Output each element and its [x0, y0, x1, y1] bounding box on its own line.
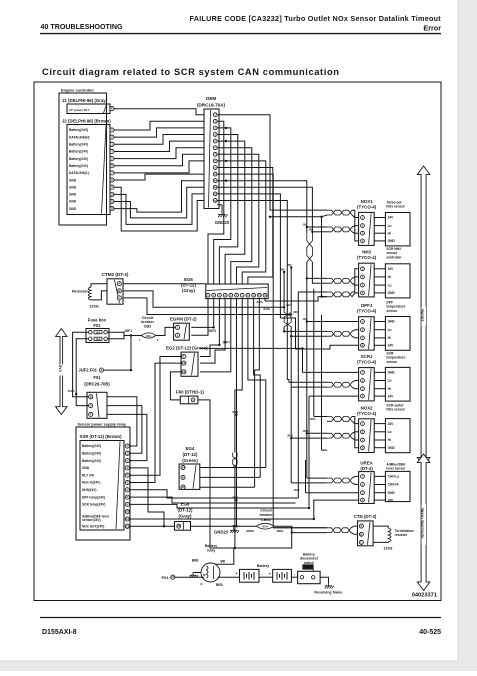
EG5 pin 8 — [246, 293, 250, 297]
wire OEM pin5 trunk to EG5 — [217, 141, 245, 284]
wire OEM pin3 trunk to EG5 — [214, 128, 231, 284]
svg-text:A: A — [118, 282, 120, 286]
F01 pin D — [89, 404, 93, 408]
wire EG5 pin9 down — [254, 299, 261, 478]
wire OEM pin9 trunk to EG5 — [217, 168, 272, 285]
svg-text:CB2: CB2 — [144, 325, 152, 329]
wire battery relay to battery — [218, 576, 240, 578]
OEM pin 4 — [213, 133, 217, 137]
svg-text:BB60: BB60 — [246, 529, 254, 533]
svg-text:Battery: Battery — [205, 544, 217, 548]
junction JUF4 — [75, 393, 77, 395]
svg-text:Hi: Hi — [388, 387, 391, 391]
wire NH3 supply upper-left from SSR — [298, 292, 327, 498]
wire J2 pin5 to OEM — [114, 148, 204, 159]
CTN pin A — [359, 524, 363, 528]
F01 pin F — [89, 412, 93, 416]
svg-text:NOX1: NOX1 — [361, 199, 374, 204]
wire EG2 pin10 left down to SSR NOx in — [129, 363, 181, 482]
svg-text:+: + — [235, 572, 237, 576]
UREA pin 2 — [361, 483, 365, 487]
EG5 pin 9 — [252, 293, 256, 297]
wire J2 pin12 staircase to OEM pin11 — [114, 181, 204, 212]
EG2 pin 1 — [182, 354, 186, 358]
OEM pin 8 — [213, 159, 217, 163]
CAN braid EG5 to DPFJ — [284, 307, 291, 327]
wire OEM pin11 CAN-H to NOX1 braid — [217, 181, 306, 227]
DPFJ pin 4 — [361, 343, 365, 347]
svg-text:JN15: JN15 — [294, 489, 301, 492]
svg-text:(DT-4): (DT-4) — [360, 466, 373, 471]
svg-text:Lo: Lo — [388, 430, 392, 434]
wire EG5 pin4 down to EG2 pin10 row — [200, 299, 225, 364]
EG4 pin 10 — [181, 465, 185, 469]
OEM pin 11 — [213, 179, 217, 183]
svg-text:Lo: Lo — [388, 283, 392, 287]
OEM pin 14 — [213, 199, 217, 203]
svg-text:GND: GND — [388, 446, 396, 450]
wire SSR pin7 NH3 supply — [129, 490, 298, 498]
OEM pin 7 — [213, 152, 217, 156]
NOX1 pin 2 — [361, 224, 365, 228]
svg-text:D155AXI-8: D155AXI-8 — [42, 629, 77, 636]
svg-text:Hi: Hi — [388, 336, 391, 340]
F01 pin B — [89, 395, 93, 399]
svg-text:sensor(24V): sensor(24V) — [82, 518, 101, 522]
wire F01 pin rows right to SSR — [107, 397, 137, 446]
svg-text:NOx OUT(24V): NOx OUT(24V) — [82, 525, 104, 529]
svg-text:EG4: EG4 — [186, 446, 195, 451]
svg-text:12: 12 — [177, 524, 180, 528]
EG5 pin 4 — [223, 293, 227, 297]
svg-text:Hi: Hi — [388, 438, 391, 442]
svg-text:SSR (DT-12) (Brown): SSR (DT-12) (Brown) — [80, 434, 123, 439]
svg-text:Lo: Lo — [388, 379, 392, 383]
footer rule — [40, 617, 441, 619]
svg-text:Circuit diagram related to SCR: Circuit diagram related to SCR system CA… — [42, 67, 340, 77]
svg-text:24V: 24V — [388, 216, 395, 220]
svg-text:C: C — [118, 296, 120, 300]
wire OEM pin1 trunk to NOX1 supply — [217, 115, 327, 210]
twisted pair NH3 supply — [327, 292, 352, 297]
svg-text:Revolving frame: Revolving frame — [314, 591, 342, 595]
wire NH3 CAN left from braid — [307, 262, 327, 278]
svg-text:B: B — [118, 289, 120, 293]
svg-text:GND: GND — [388, 320, 396, 324]
svg-text:DPFJ: DPFJ — [361, 303, 373, 308]
engine section arrow — [417, 166, 430, 466]
svg-text:JUF1: JUF1 — [124, 329, 132, 333]
svg-text:Battery: Battery — [257, 564, 269, 568]
wire J2 pin1 to OEM — [114, 121, 204, 130]
wire SCRJ GND row — [303, 371, 359, 373]
svg-text:JN8: JN8 — [293, 311, 298, 314]
vertical twisted pair near EG4 — [233, 453, 237, 468]
SCRJ pin 4 — [361, 394, 365, 398]
EG5 pin 5 — [229, 293, 233, 297]
UREA pin 3 — [361, 491, 365, 495]
svg-text:SCRJ: SCRJ — [361, 354, 373, 359]
svg-text:F60 (DTHD-1): F60 (DTHD-1) — [176, 390, 204, 395]
EG5 pin 2 — [212, 293, 216, 297]
svg-text:(TYCO-4): (TYCO-4) — [357, 360, 377, 365]
svg-text:24V: 24V — [388, 267, 395, 271]
svg-text:GND: GND — [69, 207, 77, 211]
wire SSR pin9 SCR temp supply — [129, 504, 309, 508]
page edge shading bottom — [0, 661, 477, 671]
OEM pin 13 — [213, 192, 217, 196]
svg-text:EG6: EG6 — [181, 502, 190, 507]
OEM pin 3 — [213, 126, 217, 130]
svg-text:60A: 60A — [263, 525, 269, 529]
wire NOX1 supply lower-left — [270, 215, 327, 217]
svg-text:GND: GND — [69, 193, 77, 197]
svg-text:Battery(24V): Battery(24V) — [69, 157, 88, 161]
svg-text:Battery(24V): Battery(24V) — [69, 164, 88, 168]
svg-text:resistor: resistor — [395, 533, 408, 537]
cab section arrow — [56, 329, 67, 415]
svg-text:BR: BR — [221, 560, 226, 564]
svg-text:Resistor: Resistor — [72, 289, 88, 294]
svg-text:JUF5: JUF5 — [256, 300, 263, 304]
svg-text:JN1: JN1 — [303, 224, 308, 227]
svg-text:GND: GND — [388, 371, 396, 375]
wire EG5 pin2 down junction JUF3 — [191, 299, 213, 328]
wire UREA GND — [306, 492, 359, 494]
wire SCRJ 24V row — [309, 395, 359, 397]
svg-text:12: 12 — [126, 524, 129, 528]
svg-text:10A: 10A — [96, 337, 101, 341]
OEM pin 2 — [213, 119, 217, 123]
OEM pin 9 — [213, 166, 217, 170]
wire NH3 supply lower-left from EG5 pin11 — [265, 297, 327, 301]
wire OEM pin10 trunk down to CTN — [217, 174, 327, 528]
OEM pin 12 — [213, 185, 217, 189]
svg-text:CTM2 (DT-3): CTM2 (DT-3) — [102, 272, 129, 277]
twisted pair to UREA CAN — [327, 478, 352, 483]
svg-text:EG5: EG5 — [184, 277, 193, 282]
svg-text:(Gray): (Gray) — [182, 288, 195, 293]
svg-text:Hi: Hi — [388, 275, 391, 279]
svg-text:GND: GND — [69, 178, 77, 182]
wire J2 pin3 to OEM — [114, 135, 204, 145]
DPFJ pin 1 — [361, 320, 365, 324]
NH3 pin 4 — [361, 291, 365, 295]
svg-text:JN11: JN11 — [303, 430, 309, 433]
wire CTM2 pin C CAN to braid — [123, 298, 291, 315]
wire switch to revolving frame ground — [320, 577, 328, 583]
svg-text:24V: 24V — [388, 422, 395, 426]
svg-text:J2 (DELPHI-96) (Brown): J2 (DELPHI-96) (Brown) — [62, 119, 111, 124]
svg-text:12: 12 — [182, 485, 185, 489]
wire J1 to OEM pin1 — [114, 109, 204, 115]
svg-text:10: 10 — [182, 361, 185, 365]
svg-text:10: 10 — [182, 465, 185, 469]
ground GND23 — [230, 528, 239, 534]
UREA pin 1 — [361, 475, 365, 479]
twisted pair DPFJ CAN — [327, 331, 352, 336]
svg-text:E: E — [200, 582, 202, 586]
wire EG5 pin6 down long — [236, 299, 238, 527]
wire battery1 to battery2 — [259, 576, 273, 578]
svg-text:(TYCO-4): (TYCO-4) — [357, 255, 377, 260]
wire J2 pin11 staircase to OEM pin12 — [114, 187, 204, 218]
svg-text:NH3: NH3 — [362, 250, 371, 255]
svg-text:CB60: CB60 — [261, 517, 272, 522]
NH3 pin 2 — [361, 275, 365, 279]
EG5 pin 6 — [235, 293, 239, 297]
wire EG5 pin11 down right — [264, 299, 266, 301]
svg-text:24V: 24V — [388, 394, 395, 398]
svg-text:Hi: Hi — [388, 231, 391, 235]
wire OEM pin12 CAN-L to NOX1 braid — [217, 187, 312, 232]
wire OEM pin2 trunk to EG5 — [208, 121, 224, 284]
svg-text:(DT-12): (DT-12) — [181, 283, 196, 288]
svg-text:sensor: sensor — [386, 360, 398, 364]
EG5 pin 10 — [257, 293, 261, 297]
svg-text:(TYCO-4): (TYCO-4) — [357, 204, 377, 209]
svg-text:Battery(24V): Battery(24V) — [82, 444, 101, 448]
ground at battery relay — [193, 572, 201, 574]
NOX2 pin 3 — [361, 438, 365, 442]
EG2 pin 12 — [182, 370, 186, 374]
EG4 pin 11 — [181, 475, 185, 479]
svg-text:JUF3: JUF3 — [208, 329, 216, 333]
wire SSR pin12 NOx OUT supply to EG6 — [129, 525, 174, 527]
page edge shading right — [458, 0, 477, 671]
svg-text:OEM: OEM — [206, 96, 217, 101]
svg-text:NOX2: NOX2 — [361, 405, 374, 410]
svg-text:RLY ON: RLY ON — [82, 473, 95, 477]
svg-text:10A: 10A — [96, 330, 101, 334]
svg-text:F01: F01 — [93, 375, 101, 380]
svg-text:J1 (DELPHI-96) (Gray): J1 (DELPHI-96) (Gray) — [62, 98, 108, 103]
wire CTM2 pin A to EG5 — [123, 283, 206, 285]
svg-text:EGPM (DT-2): EGPM (DT-2) — [170, 317, 197, 322]
svg-text:12: 12 — [111, 207, 114, 211]
svg-text:F01: F01 — [93, 323, 101, 328]
svg-text:Error: Error — [423, 24, 441, 33]
wire F01-13 to battery relay — [175, 576, 204, 578]
svg-text:K: K — [111, 107, 113, 111]
svg-text:120Ω: 120Ω — [384, 546, 393, 550]
svg-text:JUF4: JUF4 — [68, 389, 75, 393]
wire NH3 GND left — [322, 296, 328, 298]
NOX2 pin 4 — [361, 446, 365, 450]
wire OEM pin7 trunk to EG5 — [217, 154, 258, 284]
SCRJ pin 2 — [361, 379, 365, 383]
OEM pin 6 — [213, 146, 217, 150]
svg-text:(DRC18-70A): (DRC18-70A) — [197, 103, 226, 108]
EG5 pin 1 — [206, 293, 210, 297]
svg-text:JN14: JN14 — [232, 497, 239, 500]
svg-text:Engine controller: Engine controller — [61, 88, 94, 93]
svg-text:D: D — [90, 404, 92, 408]
svg-text:GND: GND — [82, 466, 90, 470]
vertical CAN braid below NOX1 — [307, 233, 313, 262]
wire CB60 right to battery relay — [215, 526, 292, 564]
wire J2 pin9 staircase to OEM pin14 — [114, 187, 204, 231]
battery 2 — [273, 569, 292, 582]
SCRJ pin 1 — [361, 371, 365, 375]
svg-text:JN12: JN12 — [287, 435, 294, 438]
wire J2 pin2 to OEM — [114, 128, 204, 137]
junction JUF1 — [130, 334, 132, 336]
NH3 pin 3 — [361, 283, 365, 287]
svg-text:Fuse box: Fuse box — [88, 318, 107, 323]
wire OEM pin6 trunk to EG5 — [217, 148, 252, 284]
svg-text:B: B — [90, 395, 92, 399]
wire OEM pin8 trunk to EG5 — [217, 161, 265, 284]
wire EG2 pin12 left to F60 — [170, 372, 181, 400]
NOX2 pin 1 — [361, 422, 365, 426]
svg-text:(DT-12): (DT-12) — [183, 452, 198, 457]
wire OEM pin4 trunk to EG5 — [217, 135, 238, 285]
svg-text:JN5: JN5 — [287, 264, 292, 267]
junction JUF7 — [218, 344, 220, 346]
wire EG6 to GND23 and CB60 — [191, 525, 257, 527]
twisted pair SCRJ CAN — [327, 382, 352, 387]
svg-text:breaker: breaker — [141, 320, 155, 324]
ground GND20 — [217, 204, 222, 206]
svg-text:Battery(24V): Battery(24V) — [69, 150, 88, 154]
svg-text:DPF temp(24V): DPF temp(24V) — [82, 495, 105, 499]
wire J2 pin10 staircase to OEM pin13 — [114, 194, 204, 225]
svg-text:GND: GND — [388, 291, 396, 295]
wire EG5 pin8 down right — [248, 299, 266, 468]
DPFJ pin 3 — [361, 336, 365, 340]
CTN pin C — [359, 540, 363, 544]
svg-text:GND: GND — [388, 239, 396, 243]
twisted pair CAN — [327, 227, 352, 232]
twisted pair supply — [327, 210, 352, 215]
wire NOX2 supply left — [314, 416, 327, 418]
svg-text:JN10: JN10 — [310, 418, 317, 421]
wire J2 pin8 to OEM pin10 — [114, 174, 204, 180]
engine controller box — [59, 93, 107, 225]
svg-text:Battery(24V): Battery(24V) — [69, 128, 88, 132]
twisted pair supply — [327, 417, 352, 422]
wire EG5 pin5 down to EG2 pin12 row — [200, 299, 231, 372]
svg-text:JN7: JN7 — [286, 304, 291, 307]
wire SSR pin8 DPF temp supply — [129, 497, 295, 503]
DPFJ pin 2 — [361, 328, 365, 332]
wire NOX1 CAN left to vertical braid — [307, 226, 327, 228]
twisted pair to CTN — [327, 528, 351, 533]
OEM pin 1 — [213, 113, 217, 117]
wire NOX2 CAN left — [307, 278, 327, 433]
svg-text:CAN Hi: CAN Hi — [388, 483, 399, 487]
OEM pin 10 — [213, 172, 217, 176]
svg-text:JN9: JN9 — [303, 318, 308, 321]
wire J2 pin4 to OEM — [114, 141, 204, 151]
NOX2 pin 2 — [361, 430, 365, 434]
svg-text:B: B — [360, 532, 362, 536]
svg-text:FAILURE CODE [CA3232] Turbo Ou: FAILURE CODE [CA3232] Turbo Outlet NOx S… — [189, 14, 441, 23]
svg-text:SCR temp(24V): SCR temp(24V) — [82, 503, 105, 507]
fuse 10A row 2 — [89, 337, 93, 341]
EG2 pin 10 — [182, 361, 186, 365]
svg-text:JN6: JN6 — [280, 269, 285, 272]
svg-text:CTN (DT-3): CTN (DT-3) — [354, 514, 377, 519]
wire fuse rows to JUF1 — [107, 332, 131, 335]
fuse 10A row 1 — [89, 330, 93, 334]
svg-text:Battery(24V): Battery(24V) — [82, 459, 101, 463]
CTM2 pin B — [117, 289, 121, 293]
wire CB2 to EGPM pin1 — [156, 327, 176, 335]
svg-text:10: 10 — [126, 510, 129, 514]
svg-text:relay: relay — [207, 549, 215, 553]
wire OEM pin14 trunk down to SCRJ — [217, 201, 289, 380]
EG5 pin 7 — [240, 293, 244, 297]
svg-text:12: 12 — [182, 370, 185, 374]
wire NOX2 GND left — [322, 449, 328, 451]
EG5 pin 3 — [218, 293, 222, 297]
svg-text:sensor: sensor — [386, 309, 398, 313]
sensor power supply relay box — [76, 427, 130, 540]
wire J2 pin7 to OEM — [114, 161, 204, 173]
wire SCRJ CAN left — [287, 380, 327, 383]
svg-text:24V: 24V — [388, 498, 395, 502]
wire SSR pin4 GND right down — [129, 468, 164, 526]
svg-text:Lo: Lo — [388, 224, 392, 228]
svg-text:(DT-12): (DT-12) — [178, 508, 193, 513]
twisted pair NH3 CAN — [327, 278, 352, 283]
svg-text:+: + — [269, 572, 271, 576]
EG4 pin 12 — [181, 485, 185, 489]
svg-text:JN2: JN2 — [309, 228, 314, 231]
svg-text:switch: switch — [304, 561, 315, 565]
svg-text:JN13: JN13 — [232, 411, 239, 414]
svg-text:AT power RLY: AT power RLY — [69, 108, 91, 112]
wire battery2 to disconnect switch — [291, 576, 297, 578]
EG5 pin 11 — [263, 293, 267, 297]
svg-text:40-525: 40-525 — [419, 629, 441, 636]
SSR pin 10 nc — [125, 510, 129, 514]
svg-text:B60L: B60L — [277, 529, 285, 533]
svg-text:Battery(24V): Battery(24V) — [69, 143, 88, 147]
junction dots NOX1 area — [306, 226, 308, 228]
NOX1 pin 3 — [361, 231, 365, 235]
svg-text:13: 13 — [171, 575, 174, 579]
svg-text:ENGINE: ENGINE — [421, 308, 425, 321]
svg-text:NOx in(24V): NOx in(24V) — [82, 481, 100, 485]
wire EG5 pin3 down to EG2 pin1 row — [200, 299, 220, 357]
OEM pin 5 — [213, 139, 217, 143]
svg-text:11: 11 — [126, 517, 129, 521]
wire EG5 pin7 down to braid — [235, 299, 242, 453]
svg-text:NH3(24V): NH3(24V) — [82, 488, 96, 492]
svg-text:GND: GND — [69, 185, 77, 189]
svg-text:C: C — [360, 540, 362, 544]
svg-text:(TYCO-4): (TYCO-4) — [357, 411, 377, 416]
wire SSR pin11 AdBlue supply — [129, 518, 313, 520]
svg-text:Lo: Lo — [388, 328, 392, 332]
svg-text:CAN Lo: CAN Lo — [388, 475, 400, 479]
UREA pin 4 — [361, 498, 365, 502]
battery 1 — [240, 569, 260, 582]
wire CTM2 pin B CAN to braid — [123, 291, 284, 307]
svg-text:EG2 (DT-12) (Green): EG2 (DT-12) (Green) — [166, 346, 208, 351]
wire DPFJ CAN from CTM2 braid — [284, 330, 327, 332]
svg-text:GND23: GND23 — [214, 530, 229, 535]
wire DPFJ 24V supply — [280, 318, 358, 349]
svg-text:level sensor: level sensor — [386, 467, 406, 471]
wire EG4 pin rows right — [200, 467, 266, 469]
wire OEM pin13 trunk down to DPFJ supply — [217, 194, 280, 318]
wire J2 pin6 to OEM — [114, 154, 204, 165]
termination resistor — [373, 526, 388, 528]
